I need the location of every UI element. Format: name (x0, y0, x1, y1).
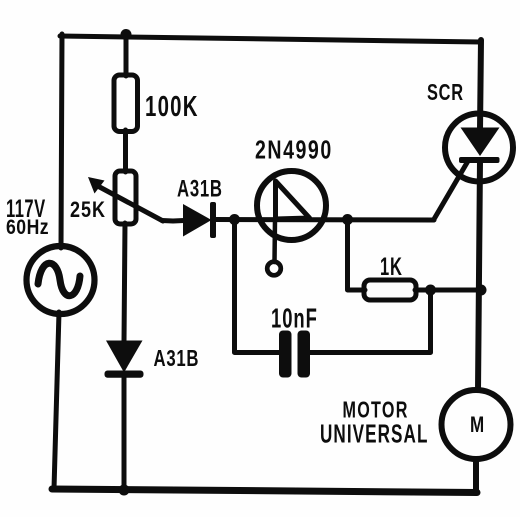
svg-text:1K: 1K (380, 254, 403, 281)
trigger U1 2N4990 circle (257, 171, 326, 240)
wire left vertical upper (61, 34, 62, 248)
svg-text:SCR: SCR (427, 80, 464, 105)
wire SCR gate diagonal (434, 161, 469, 220)
wire D2-to-bottom (122, 376, 127, 491)
svg-text:100K: 100K (145, 92, 199, 123)
SCR Q1 circle (445, 114, 513, 182)
trigger U1 triangle (276, 181, 310, 219)
AC source V1 circle (27, 246, 95, 314)
wire top horizontal (60, 36, 481, 42)
wire motor bottom (473, 458, 479, 492)
svg-text:2N4990: 2N4990 (255, 135, 333, 164)
wire 1K-left branch (348, 219, 366, 290)
wire wiper-to-D1 (162, 218, 184, 224)
diode D2 A31B cathode bar (105, 371, 144, 378)
node J4 right of 1K (425, 285, 436, 296)
resistor R1 100K body (114, 75, 138, 132)
capacitor C1 right plate (298, 331, 311, 378)
wire 100K-to-pot (123, 130, 128, 172)
diode D1 A31B triangle (183, 204, 212, 237)
node J6 bottom (119, 485, 130, 496)
diode D1 A31B cathode bar (210, 202, 216, 238)
wire 1K-right to right rail (415, 288, 481, 293)
wire left vertical lower (54, 312, 59, 489)
node J5 right rail (476, 285, 487, 296)
wire bottom horizontal (52, 489, 477, 493)
svg-text:25K: 25K (70, 198, 106, 222)
svg-text:A31B: A31B (177, 176, 223, 203)
svg-text:A31B: A31B (154, 346, 200, 371)
svg-text:60Hz: 60Hz (6, 216, 49, 240)
svg-text:UNIVERSAL: UNIVERSAL (320, 419, 428, 448)
wire pot-to-diode-D2 (124, 223, 125, 342)
SCR Q1 cathode bar (459, 157, 500, 163)
trigger U1 gate lead (272, 219, 277, 262)
svg-text:M: M (470, 413, 484, 438)
node J2 after D1 (229, 214, 240, 225)
SCR Q1 anode triangle (461, 128, 500, 157)
potentiometer R2 arrowhead (88, 177, 105, 194)
potentiometer R2 25K body (115, 171, 136, 224)
diode D2 A31B triangle (106, 341, 143, 373)
resistor R3 1K body (364, 280, 416, 300)
node J3 mid wire (342, 214, 353, 225)
svg-text:10nF: 10nF (271, 303, 318, 334)
wire junction-to-100K (124, 33, 129, 76)
wire mid horizontal (D1 to SCR gate bend) (215, 217, 434, 223)
trigger U1 open terminal (267, 262, 281, 276)
motor M1 circle (442, 390, 511, 459)
wire cap-right branch (309, 289, 431, 353)
capacitor C1 left plate (279, 331, 292, 378)
node J1 top (121, 29, 132, 40)
wire right vertical upper (to SCR) (480, 40, 481, 130)
AC source V1 sine wave (38, 263, 80, 296)
potentiometer R2 wiper arrow shaft (94, 184, 163, 221)
wire right vertical lower (SCR to motor) (478, 160, 480, 391)
wire cap-left branch (235, 219, 281, 353)
